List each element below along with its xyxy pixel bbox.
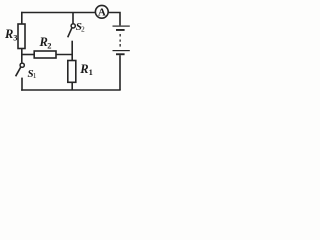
battery plate: short negative (bottom cell) <box>116 53 125 55</box>
label R2 <box>39 35 52 50</box>
label S1 <box>28 68 37 80</box>
svg-text:2: 2 <box>81 24 85 33</box>
wire: S1 to bottom-left corner <box>21 78 23 91</box>
svg-text:A: A <box>98 7 106 19</box>
wire: left side, top corner down to R3 <box>21 12 23 24</box>
resistor R1 <box>68 61 76 83</box>
svg-text:3: 3 <box>13 33 17 43</box>
resistor R2 <box>34 51 56 58</box>
label R1 <box>79 62 93 77</box>
svg-text:2: 2 <box>47 40 51 50</box>
label S2 <box>76 21 85 33</box>
battery dashed continuation <box>120 34 121 37</box>
svg-text:1: 1 <box>33 71 37 80</box>
svg-text:R: R <box>79 62 88 76</box>
battery plate: long positive (bottom cell) <box>113 50 130 51</box>
battery plate: short negative (top cell) <box>116 29 125 31</box>
svg-text:1: 1 <box>89 67 93 77</box>
wire: S2 lower stub through junction to R1 <box>71 41 73 61</box>
switch S2 <box>68 13 76 38</box>
wire: middle horizontal, R2 to R1 column junction <box>56 54 73 56</box>
wire: battery to bottom-right corner <box>119 55 121 90</box>
wire: top horizontal (left corner to ammeter) <box>21 12 96 14</box>
wire: left side, R3 to switch S1 (with tee to middle wire) <box>21 49 23 63</box>
battery (multi-cell with dashed middle) <box>113 26 130 56</box>
label R3 <box>4 27 17 43</box>
wire: bottom horizontal <box>21 89 121 91</box>
switch S1 <box>16 63 25 76</box>
wire: stub from top wire to S2 circle <box>72 13 74 24</box>
svg-text:R: R <box>4 27 13 41</box>
wire: R1 to bottom wire <box>71 82 73 90</box>
ammeter A <box>95 5 108 18</box>
battery plate: long positive (top cell) <box>113 26 130 27</box>
wire: top right segment and right side down to battery <box>108 13 120 26</box>
wire: middle horizontal, left wire to R2 <box>22 54 35 56</box>
resistor R3 <box>18 24 25 49</box>
